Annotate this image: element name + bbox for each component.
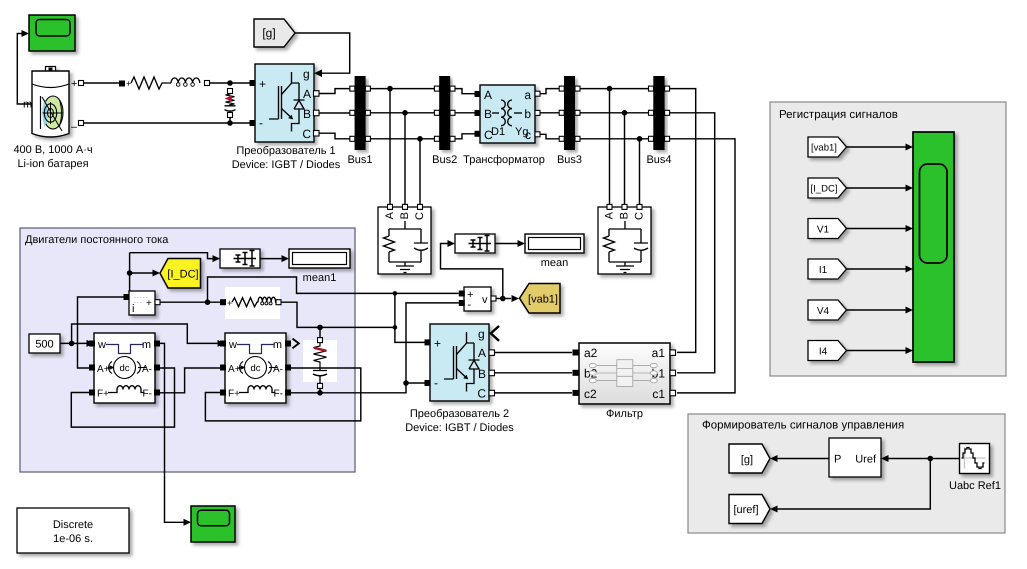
svg-text:A: A [484, 88, 492, 102]
From tag [g] [254, 19, 295, 47]
wire CM output to RL branch 2 [160, 301, 221, 303]
DC- rail: motor2 F- to converter2 - [291, 383, 425, 393]
svg-text:Bus3: Bus3 [557, 154, 582, 166]
From tag I1 [808, 259, 847, 279]
battery 400V Li-ion [32, 67, 69, 138]
converter1 ports [250, 80, 256, 86]
svg-text:Преобразователь 2: Преобразователь 2 [410, 408, 509, 420]
battery recycle icon [41, 96, 64, 131]
svg-text:m: m [23, 99, 32, 111]
wires Bus3 to Bus4 [580, 89, 649, 139]
svg-text:g: g [303, 67, 310, 81]
svg-text:D1: D1 [491, 126, 505, 138]
wire from vab node to mean block [441, 244, 503, 299]
svg-text:a1: a1 [652, 346, 666, 360]
From tag V4 [808, 300, 847, 320]
svg-text:Фильтр: Фильтр [606, 408, 643, 420]
wires Bus1 to Bus2 (3 phases) [370, 89, 434, 139]
svg-text:A: A [303, 87, 311, 101]
svg-text:I1: I1 [819, 265, 828, 276]
wire battery m to Scope1 [17, 34, 32, 105]
current measurement CM [129, 291, 155, 315]
svg-text:B: B [484, 107, 492, 121]
svg-text:F+: F+ [97, 389, 109, 400]
wire PWM to [g] [778, 458, 830, 460]
svg-text:+: + [71, 78, 77, 90]
Bus2 [439, 76, 450, 150]
inductor L (RL branch 1) [171, 78, 200, 83]
scope Scope1 (battery voltage) [29, 15, 75, 51]
junction node DC+ [227, 80, 233, 86]
svg-text:F-: F- [143, 389, 152, 400]
node phase C tap to load2 [637, 136, 643, 142]
svg-text:V4: V4 [817, 306, 830, 317]
svg-text:Формирователь сигналов управле: Формирователь сигналов управления [702, 420, 904, 432]
svg-text:Uabc Ref1: Uabc Ref1 [949, 480, 1001, 492]
svg-text:A: A [604, 211, 616, 219]
big scope (registration) [913, 132, 954, 362]
svg-text:P: P [834, 454, 841, 466]
wire CM i output up to node [129, 253, 131, 291]
svg-text:[I_DC]: [I_DC] [811, 184, 838, 195]
RC branch 2 (vertical, DC link) [303, 340, 337, 382]
node phase C tap / wire down to load1 [417, 136, 423, 142]
converter U1: Преобразователь 1 [255, 64, 314, 142]
constant block 500 [29, 334, 60, 353]
svg-text:Device: IGBT / Diodes: Device: IGBT / Diodes [405, 422, 514, 434]
wire 500 node to motor2 w [72, 324, 218, 343]
svg-text:[uref]: [uref] [733, 504, 758, 516]
motor2 unconnected m output chevron [293, 339, 299, 349]
converter2 ports [425, 339, 431, 345]
svg-text:[g]: [g] [741, 454, 753, 466]
area box: Двигатели постоянного тока [20, 228, 355, 472]
svg-text:A-: A- [142, 364, 152, 375]
svg-text:C: C [414, 212, 426, 220]
svg-text:-: - [259, 116, 263, 130]
wire Bus4 b to filter b1 [670, 113, 715, 373]
DC+ rail vertical into converter2 + [395, 293, 425, 342]
wire node to mean1 block [130, 253, 213, 259]
snubber RC branch (vertical) [228, 89, 233, 94]
wire mean block to display mean [495, 243, 518, 245]
From tag I4 [808, 341, 847, 361]
wire motor1 m to Scope2 [160, 343, 184, 522]
Bus4 [653, 76, 664, 150]
wires Bus2 to transformer [455, 89, 475, 139]
Bus3 [564, 76, 575, 150]
svg-text:+: + [259, 77, 266, 91]
source Uabc Ref1 [960, 444, 990, 474]
load2 RC circuit [604, 221, 649, 273]
discrete mean block (mean1) [220, 249, 260, 268]
svg-text:C: C [634, 212, 646, 220]
junction node DC- [227, 120, 233, 126]
wire VM output to vab node [496, 298, 511, 300]
svg-text:g: g [478, 327, 485, 341]
wires transformer to Bus3 [540, 89, 559, 139]
svg-text:b: b [524, 107, 531, 121]
svg-text:A+: A+ [97, 364, 110, 375]
svg-text:+: + [126, 79, 131, 89]
wire battery - to converter - [84, 122, 252, 124]
mean icon [469, 236, 492, 252]
svg-text:C: C [477, 387, 486, 401]
svg-text:[g]: [g] [262, 26, 275, 40]
svg-text:–: – [71, 121, 78, 133]
svg-text:Преобразователь 1: Преобразователь 1 [236, 145, 335, 157]
Discrete solver info block [17, 508, 129, 553]
svg-text:Bus2: Bus2 [432, 154, 457, 166]
wire to scope [847, 146, 906, 148]
svg-text:A+: A+ [228, 364, 241, 375]
load1 RC circuit [384, 221, 429, 273]
transformer ports [475, 91, 481, 97]
wire node to Goto [I_DC] [130, 272, 153, 274]
svg-text:+: + [227, 298, 232, 308]
node phase A tap / wire down to load1 [387, 86, 393, 92]
wire Bus4 c to filter c1 [670, 139, 735, 393]
wires converter2 to filter [495, 353, 573, 393]
wire CM input from motor1 A+ chain [78, 297, 124, 368]
node phase B tap to load2 [622, 110, 628, 116]
svg-text:Bus1: Bus1 [347, 154, 372, 166]
filter inner icon [589, 360, 657, 387]
wire battery + to RL branch [84, 82, 120, 84]
Goto tag [uref] [729, 495, 770, 524]
wire CM node to VM + input [208, 277, 459, 302]
svg-text:V1: V1 [817, 225, 830, 236]
transformer T1: Трансформатор [480, 85, 535, 143]
three-phase RC load 2 [598, 207, 651, 274]
svg-text:A-: A- [273, 364, 283, 375]
wire motor2 A- to motor2 F+ [205, 368, 360, 421]
node phase B tap / wire down to load1 [402, 110, 408, 116]
svg-text:a: a [524, 88, 531, 102]
wire Uabc Ref1 to PWM Uref [889, 458, 961, 460]
wire VM - input [406, 303, 459, 383]
svg-text:v: v [482, 294, 488, 306]
wire motor1 F- to motor2 A+ [160, 368, 220, 393]
svg-text:+: + [146, 298, 152, 309]
wire motor1 A- to motor1 F+ [71, 368, 174, 427]
svg-text:C: C [302, 127, 311, 141]
resistor R (RL branch 1) [131, 77, 171, 89]
svg-text:Uref: Uref [855, 454, 877, 466]
filter ports [573, 350, 579, 356]
filter block: Фильтр [579, 343, 670, 404]
svg-text:-: - [434, 376, 438, 390]
three-phase RC load 1 [378, 207, 431, 274]
svg-text:[I_DC]: [I_DC] [167, 269, 198, 281]
svg-text:mean1: mean1 [303, 272, 337, 284]
svg-text:m: m [142, 339, 151, 351]
wire 500 to motor1 w [60, 342, 87, 344]
display mean [525, 234, 584, 253]
wire [g] to converter1 g input [295, 33, 350, 73]
wire conv1 B to Bus1 [319, 112, 350, 114]
svg-text:Двигатели постоянного тока: Двигатели постоянного тока [25, 234, 169, 246]
series RL branch 1 input port [119, 81, 125, 87]
Goto tag [I_DC] [160, 259, 201, 289]
svg-text:dc: dc [119, 363, 129, 374]
svg-text:-: - [468, 299, 472, 311]
wire RL2 output to DC+ rail of converter2 [281, 302, 395, 327]
converter U2: Преобразователь 2 [430, 324, 489, 401]
svg-text:F+: F+ [228, 389, 240, 400]
svg-text:A: A [384, 211, 396, 219]
svg-text:w: w [228, 339, 237, 351]
scope Scope2 [191, 506, 235, 542]
svg-text:Трансформатор: Трансформатор [463, 154, 545, 166]
svg-text:[vab1]: [vab1] [811, 143, 837, 154]
area box: Формирователь сигналов управления [688, 414, 1005, 533]
svg-text:400 В, 1000 А·ч: 400 В, 1000 А·ч [13, 144, 92, 156]
svg-text:B: B [619, 212, 631, 219]
svg-text:I4: I4 [819, 347, 828, 358]
svg-text:c2: c2 [584, 387, 597, 401]
wire node to [uref] [778, 459, 931, 510]
winding symbol [492, 100, 522, 126]
IGBT/diode icon (converter 2) [444, 332, 480, 392]
svg-text:mean: mean [541, 257, 569, 269]
area box: Регистрация сигналов [770, 102, 1006, 376]
Bus1 [355, 76, 366, 150]
wire RL to converter + with junction [210, 82, 252, 84]
From tag [vab1] (registration) [808, 137, 847, 157]
svg-text:i: i [132, 303, 134, 315]
svg-text:B: B [399, 212, 411, 219]
svg-text:Discrete: Discrete [53, 519, 93, 531]
RL branch 1 output port [205, 81, 210, 86]
svg-text:Bus4: Bus4 [646, 154, 671, 166]
wire mean1 block to display mean1 [260, 258, 282, 260]
voltage measurement VM [464, 287, 491, 311]
svg-text:c1: c1 [652, 387, 665, 401]
node phase A tap to load2 [607, 86, 613, 92]
IGBT/diode icon (converter 1) [269, 72, 305, 132]
From tag [I_DC] (registration) [808, 178, 847, 198]
svg-text:Li-ion батарея: Li-ion батарея [17, 158, 88, 170]
svg-text:[vab1]: [vab1] [528, 294, 558, 306]
wire Bus4 a to filter a1 [670, 89, 696, 353]
svg-text:Yg: Yg [515, 126, 528, 138]
svg-text:1e-06 s.: 1e-06 s. [53, 533, 93, 545]
svg-text:Регистрация сигналов: Регистрация сигналов [779, 109, 898, 121]
svg-text:a2: a2 [584, 346, 598, 360]
svg-text:Device: IGBT / Diodes: Device: IGBT / Diodes [232, 159, 341, 171]
converter2 unconnected g input chevron [491, 326, 499, 341]
Goto tag [vab1] [520, 284, 561, 314]
display mean1 [289, 249, 350, 268]
svg-text:A: A [478, 346, 486, 360]
svg-text:F-: F- [274, 389, 283, 400]
svg-text:500: 500 [35, 339, 53, 351]
discrete mean block (mean) [455, 234, 495, 253]
svg-text:dc: dc [250, 363, 260, 374]
DC motor 1 [94, 333, 155, 403]
wire conv1 A to Bus1 [319, 89, 350, 94]
wire conv1 C to Bus1 [319, 133, 350, 139]
DC motor 2 [225, 333, 286, 403]
Goto tag [g] (control) [729, 444, 770, 473]
svg-text:+: + [434, 337, 441, 351]
PWM generator block [829, 438, 881, 477]
From tag V1 [808, 219, 847, 239]
svg-text:w: w [97, 339, 106, 351]
series RL branch 2 [225, 287, 280, 319]
svg-text:m: m [273, 339, 282, 351]
